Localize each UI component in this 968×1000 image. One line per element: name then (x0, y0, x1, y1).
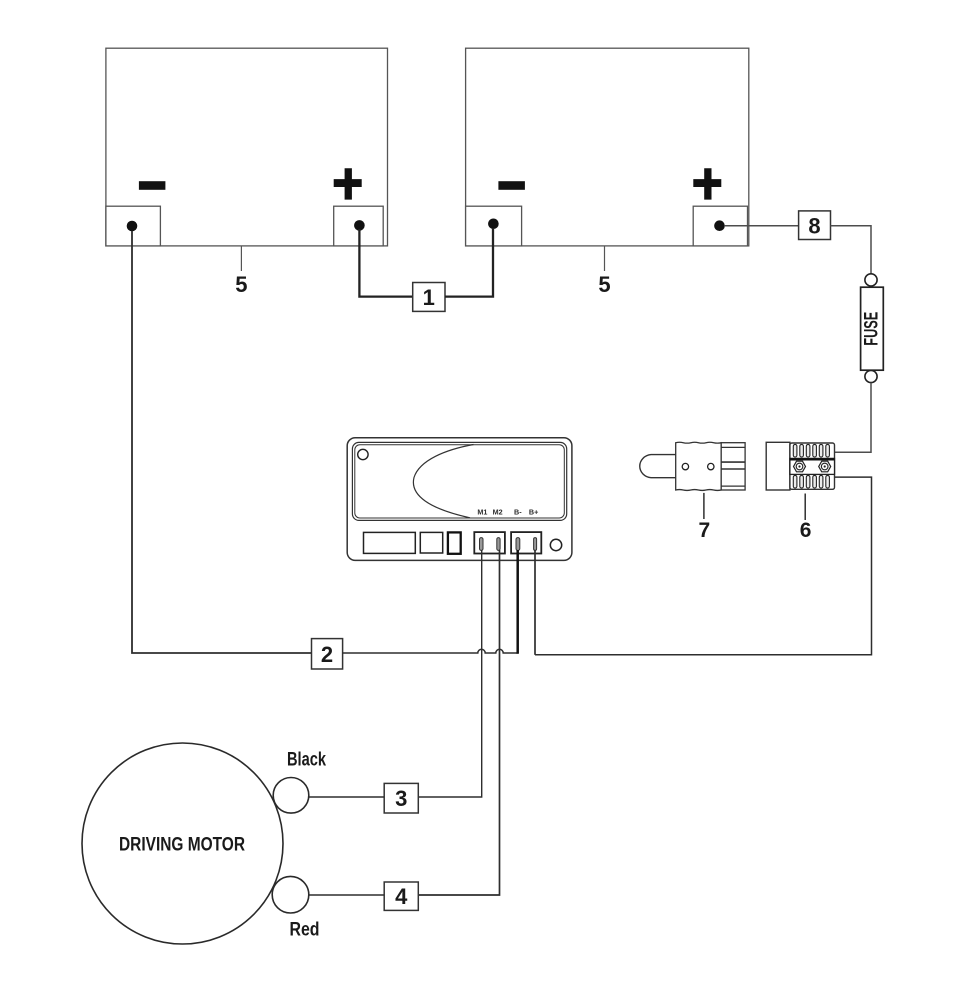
svg-text:6: 6 (800, 519, 812, 542)
battery B1 minus symbol (139, 181, 166, 190)
fuse top cap circle (865, 274, 877, 286)
svg-text:DRIVING MOTOR: DRIVING MOTOR (119, 834, 245, 856)
battery B2 minus terminal box (466, 206, 522, 246)
controller U1 connector block B-B+ (511, 532, 541, 553)
svg-text:B+: B+ (529, 507, 538, 516)
controller U1 screw circle (358, 449, 368, 459)
junction box 3 (384, 783, 418, 813)
wire fuse to connector 6 (835, 383, 872, 453)
connector 7 pin hole right (708, 463, 714, 469)
connector 6 bolt right (819, 461, 831, 472)
connector 7 tongue (640, 455, 676, 478)
battery B1 minus terminal box (106, 206, 160, 246)
controller U1 bottom slot B (420, 532, 442, 553)
controller U1 pin B- (516, 538, 520, 551)
svg-text:B-: B- (514, 507, 522, 516)
wire box 1 to battery B2 minus (445, 228, 493, 297)
junction box 1 (413, 283, 445, 312)
battery B2 outline (466, 48, 749, 246)
battery B2 minus terminal dot (488, 219, 499, 230)
controller U1 pin M1 (480, 538, 484, 551)
connector 6 body (790, 443, 835, 489)
svg-text:7: 7 (698, 519, 710, 542)
wire box 8 to fuse (831, 226, 872, 274)
battery B1 minus terminal dot (127, 221, 138, 232)
battery B1 plus terminal box (334, 206, 384, 246)
controller U1 top panel outer line (352, 442, 566, 520)
junction box 2 (312, 639, 343, 669)
battery B2 plus terminal box (693, 206, 747, 246)
label 5 leader (battery B1) (240, 246, 242, 271)
svg-text:Black: Black (287, 749, 326, 771)
controller U1 connector block M1M2 (474, 532, 505, 553)
junction box 8 (799, 211, 831, 240)
wire controller M1 pin down to box 3 level (418, 550, 481, 797)
wire battery B1 plus to box 1 (359, 229, 412, 297)
battery B1 plus symbol (334, 168, 362, 199)
connector 6 top teeth (793, 444, 829, 457)
controller U1 top panel inner line (355, 445, 565, 518)
controller U1 bottom slot A (364, 532, 416, 553)
svg-text:M1: M1 (477, 507, 487, 516)
svg-text:2: 2 (321, 642, 333, 667)
battery B1 plus terminal dot (354, 220, 365, 231)
motor red terminal circle (272, 876, 309, 913)
wire box 3 to motor black terminal (308, 796, 384, 798)
svg-text:FUSE: FUSE (862, 312, 883, 346)
connector 7 mating face (721, 443, 745, 490)
svg-text:3: 3 (395, 786, 407, 811)
motor black terminal circle (273, 778, 309, 814)
label 7 leader (703, 493, 705, 519)
svg-text:Red: Red (290, 919, 320, 941)
wire controller B+ to connector 6 bottom (535, 477, 872, 655)
svg-text:5: 5 (598, 272, 610, 297)
fuse body (861, 287, 884, 370)
battery B1 outline (106, 48, 388, 246)
connector 6 middle band (790, 458, 835, 474)
connector 7 body (676, 442, 721, 490)
label 5 leader (battery B2) (604, 246, 606, 271)
wire controller M2 pin down to box 4 level (418, 550, 499, 895)
battery B2 minus symbol (498, 181, 525, 190)
connector 6 left block (766, 442, 790, 490)
controller U1 outer case (347, 438, 572, 561)
junction box 4 (384, 882, 418, 910)
wire box 4 to motor red terminal (308, 894, 384, 896)
connector 6 bottom teeth (793, 475, 829, 488)
svg-text:4: 4 (395, 884, 408, 909)
battery B2 plus symbol (693, 168, 721, 199)
controller U1 bottom-right circle (550, 539, 561, 550)
motor M1 body circle (82, 743, 283, 944)
controller U1 case contour curve (413, 445, 473, 518)
connector 6 bolt left (794, 461, 806, 472)
svg-text:M2: M2 (493, 507, 503, 516)
connector 7 pin hole left (682, 463, 688, 469)
svg-text:8: 8 (808, 213, 820, 238)
svg-text:5: 5 (235, 272, 247, 297)
fuse bottom cap circle (865, 370, 877, 382)
wire controller B+ pin down (534, 550, 536, 655)
wire controller B- pin down (516, 550, 519, 654)
controller U1 pin M2 (497, 538, 500, 551)
wire battery B2 plus to box 8 (725, 225, 799, 227)
svg-text:1: 1 (423, 285, 435, 310)
label 6 leader (804, 494, 806, 521)
wire battery B1 minus down to box 2 (132, 231, 312, 653)
controller U1 bottom slot C (448, 532, 461, 553)
controller U1 pin B+ (534, 538, 537, 551)
battery B2 plus terminal dot (714, 220, 725, 231)
wire box 2 to controller B- (hops over M1 M2) (343, 649, 518, 653)
